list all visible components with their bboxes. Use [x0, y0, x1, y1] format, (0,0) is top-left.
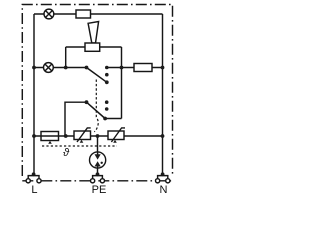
switch S1 blade tip: [105, 80, 109, 84]
node: bottom row/left riser: [32, 134, 36, 138]
wire: disconnector box feed at y=47: [66, 46, 122, 48]
wire: lower switch pivot feed: [65, 102, 87, 136]
wire: spark gap feed down to PE terminal: [97, 136, 99, 174]
node: rail/left riser: [32, 66, 36, 70]
node: terminal L top: [32, 172, 36, 176]
terminal N clamp symbol: [156, 176, 170, 183]
junction dots: [32, 66, 165, 177]
node: rail/x65.7: [64, 66, 68, 70]
label L: [24, 185, 44, 196]
mechanical linkage (dashed) from thermal element to switches: [94, 80, 98, 132]
thermal contact arrow under RV1: [80, 140, 84, 143]
wire: top rail L to N riser: [34, 13, 163, 15]
wire: bottom component row: [34, 135, 163, 137]
node: bottom row/right riser: [161, 134, 165, 138]
thermal disconnector body box: [85, 43, 100, 51]
switch S2 contact a: [105, 100, 109, 104]
resistor R1 (top): [76, 10, 91, 18]
switch S2 blade tip: [103, 117, 107, 121]
node: bottom row/spark gap: [96, 134, 100, 138]
indicator lamp H2: [44, 63, 54, 73]
switch S2 blade (lower changeover): [87, 102, 106, 118]
wire: right riser from top wire to terminal N: [162, 14, 164, 174]
wire: left riser from top wire to terminal L: [33, 14, 35, 174]
node: terminal PE top: [96, 172, 100, 176]
enclosure boundary (dash-dot frame): [22, 5, 172, 181]
switch S2 contact b: [105, 107, 109, 111]
node: terminal N top: [161, 172, 165, 176]
varistor RV1: [74, 128, 91, 142]
wire: lower blade tip return to x=121.5: [105, 118, 121, 120]
node: rail/right riser: [161, 66, 165, 70]
terminal L clamp symbol: [26, 176, 41, 183]
thermal disconnector flag (trapezoid): [88, 22, 99, 44]
switch S1 contact b: [105, 73, 109, 77]
wire: upper changeover rail (left part): [34, 67, 87, 69]
wire: vertical x=121.5 from y=47 down to lower blade return: [121, 47, 123, 119]
thermal contact arrow under fuse: [48, 141, 52, 144]
varistor RV2: [108, 128, 125, 142]
switch S2 pivot: [85, 100, 89, 104]
node: bottom row/x65: [64, 134, 68, 138]
label PE: [89, 185, 109, 196]
switch S1 blade (upper changeover, open): [87, 68, 107, 83]
resistor R2 (right branch): [134, 64, 152, 72]
wire: upper changeover rail (right part): [107, 67, 163, 69]
label theta (thermal): [56, 147, 76, 159]
label N: [154, 185, 174, 196]
switch S1 contact a: [105, 66, 109, 70]
spark gap / gas discharge tube to PE: [90, 152, 106, 168]
switch S1 pivot: [85, 66, 89, 70]
thermal sensing line (dashed): [42, 145, 117, 147]
wire: drop from y=47 to upper rail: [65, 47, 67, 68]
node: rail/x121.5: [120, 66, 124, 70]
thermal contact arrow under RV2: [113, 140, 117, 143]
indicator lamp H1: [44, 9, 54, 19]
fuse F1 (box with through line): [41, 132, 59, 141]
terminal PE clamp symbol: [91, 176, 105, 183]
